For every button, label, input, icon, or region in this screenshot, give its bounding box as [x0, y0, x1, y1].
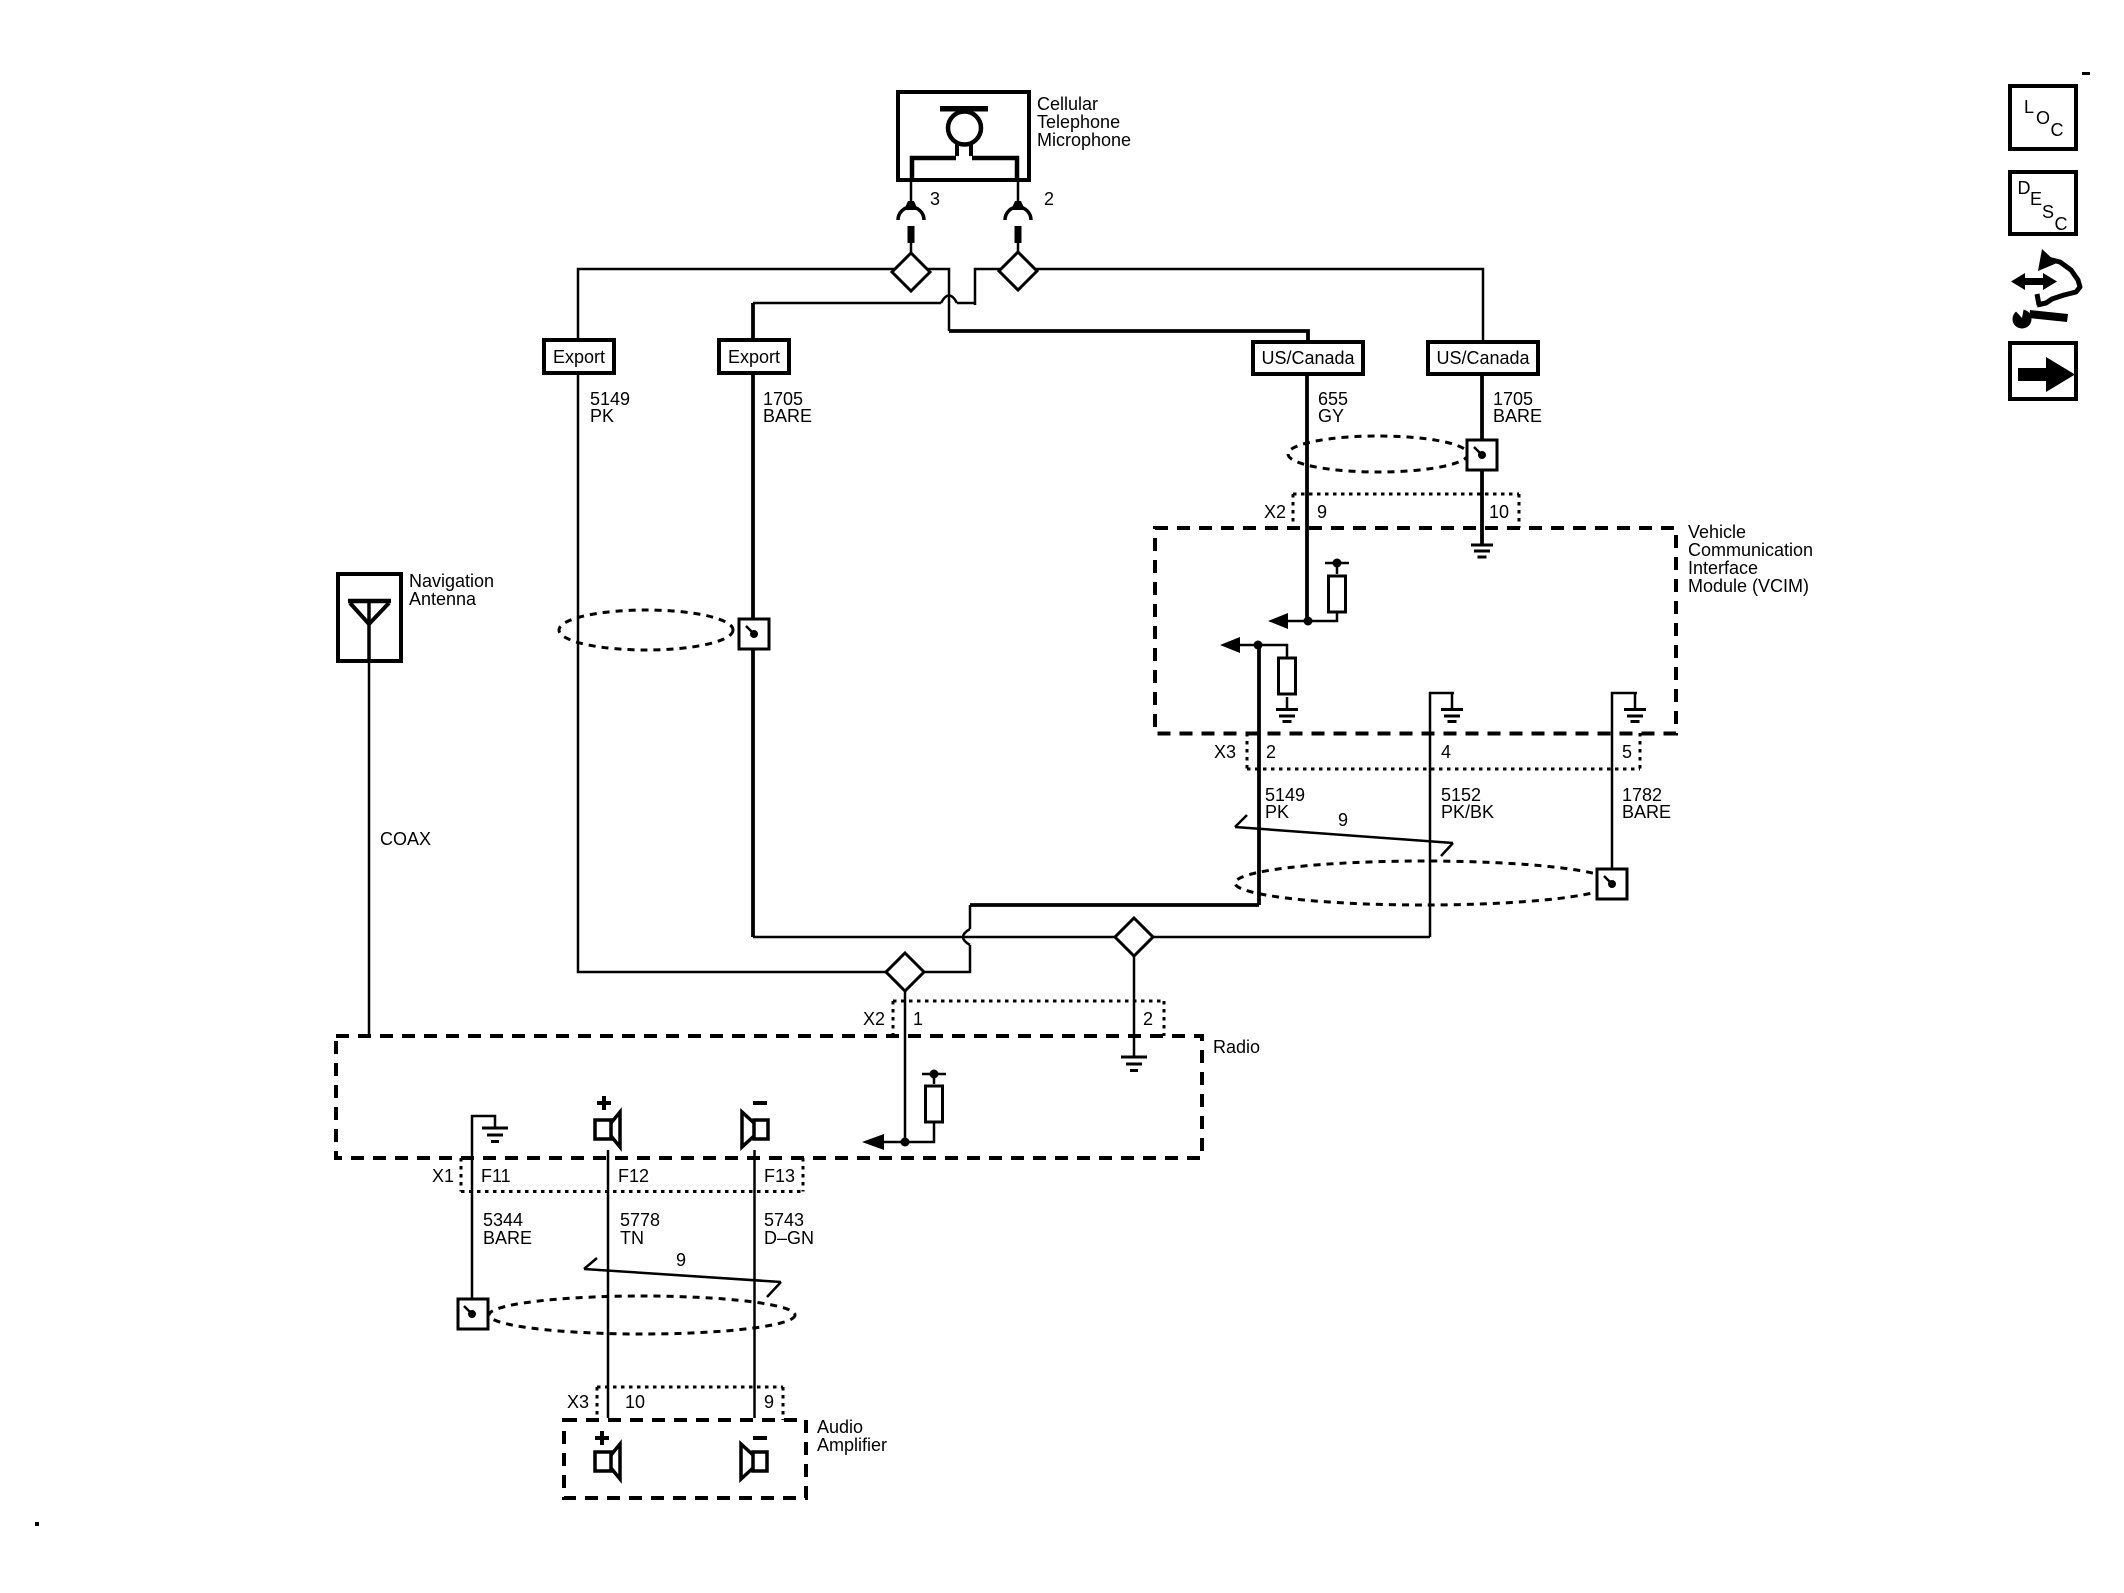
- svg-text:10: 10: [1489, 502, 1509, 522]
- svg-text:C: C: [2055, 214, 2068, 234]
- svg-text:L: L: [2024, 97, 2034, 117]
- svg-text:9: 9: [676, 1250, 686, 1270]
- svg-text:9: 9: [1317, 502, 1327, 522]
- svg-text:Communication: Communication: [1688, 540, 1813, 560]
- svg-text:Amplifier: Amplifier: [817, 1435, 887, 1455]
- svg-text:5743: 5743: [764, 1210, 804, 1230]
- svg-text:F11: F11: [481, 1166, 511, 1186]
- svg-text:S: S: [2042, 202, 2054, 222]
- svg-text:2: 2: [1266, 742, 1276, 762]
- svg-text:3: 3: [930, 189, 940, 209]
- svg-text:1: 1: [913, 1009, 923, 1029]
- svg-text:BARE: BARE: [1493, 406, 1542, 426]
- svg-text:5344: 5344: [483, 1210, 523, 1230]
- svg-text:10: 10: [625, 1392, 645, 1412]
- svg-text:F13: F13: [764, 1166, 795, 1186]
- svg-text:5: 5: [1622, 742, 1632, 762]
- svg-text:4: 4: [1441, 742, 1451, 762]
- svg-text:US/Canada: US/Canada: [1261, 348, 1355, 368]
- svg-text:Module (VCIM): Module (VCIM): [1688, 576, 1809, 596]
- svg-text:9: 9: [764, 1392, 774, 1412]
- svg-text:5778: 5778: [620, 1210, 660, 1230]
- svg-text:BARE: BARE: [763, 406, 812, 426]
- svg-text:Cellular: Cellular: [1037, 94, 1098, 114]
- svg-text:F12: F12: [618, 1166, 649, 1186]
- svg-text:PK/BK: PK/BK: [1441, 802, 1494, 822]
- svg-text:BARE: BARE: [1622, 802, 1671, 822]
- svg-text:Interface: Interface: [1688, 558, 1758, 578]
- svg-text:X2: X2: [863, 1009, 885, 1029]
- svg-text:Audio: Audio: [817, 1417, 863, 1437]
- svg-text:D–GN: D–GN: [764, 1228, 814, 1248]
- svg-text:Antenna: Antenna: [409, 589, 477, 609]
- svg-text:9: 9: [1338, 810, 1348, 830]
- svg-text:2: 2: [1044, 189, 1054, 209]
- svg-text:O: O: [2036, 108, 2050, 128]
- svg-text:PK: PK: [1265, 802, 1289, 822]
- svg-text:BARE: BARE: [483, 1228, 532, 1248]
- svg-text:2: 2: [1143, 1009, 1153, 1029]
- svg-text:X3: X3: [1214, 742, 1236, 762]
- svg-text:Microphone: Microphone: [1037, 130, 1131, 150]
- svg-text:US/Canada: US/Canada: [1436, 348, 1530, 368]
- svg-text:PK: PK: [590, 406, 614, 426]
- svg-text:Export: Export: [553, 347, 605, 367]
- svg-text:E: E: [2030, 189, 2042, 209]
- svg-text:Radio: Radio: [1213, 1037, 1260, 1057]
- svg-text:X3: X3: [567, 1392, 589, 1412]
- svg-text:Navigation: Navigation: [409, 571, 494, 591]
- svg-text:GY: GY: [1318, 406, 1344, 426]
- svg-text:C: C: [2051, 120, 2064, 140]
- svg-text:Telephone: Telephone: [1037, 112, 1120, 132]
- svg-text:D: D: [2018, 178, 2031, 198]
- svg-text:X2: X2: [1264, 502, 1286, 522]
- svg-text:Export: Export: [728, 347, 780, 367]
- svg-text:COAX: COAX: [380, 829, 431, 849]
- svg-text:Vehicle: Vehicle: [1688, 522, 1746, 542]
- svg-text:TN: TN: [620, 1228, 644, 1248]
- svg-text:X1: X1: [432, 1166, 454, 1186]
